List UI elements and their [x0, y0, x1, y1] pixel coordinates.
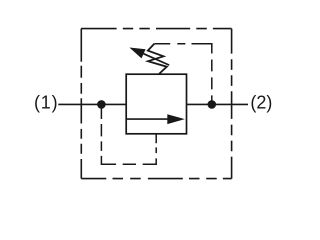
node at port 2 (junction dot) [208, 100, 217, 109]
pilot sensing dashed line from port 1 node: vertical run down [101, 107, 116, 164]
svg-text:(1): (1) [34, 92, 58, 112]
enclosure boundary, left edge [80, 29, 82, 179]
pilot sensing line: dashed then solid stub up to valve bottom [155, 134, 157, 153]
relief valve envelope (square) [126, 74, 186, 134]
enclosure boundary, bottom edge [81, 178, 231, 180]
port 2 line [187, 103, 249, 105]
flow path arrow inside valve [126, 114, 185, 124]
port 1 line [58, 103, 126, 105]
enclosure boundary, right edge [231, 29, 233, 179]
svg-text:(2): (2) [250, 93, 272, 113]
node at port 1 (junction dot) [97, 100, 106, 109]
spring (zigzag) on top of valve [148, 44, 167, 74]
pilot/vent dashed line from spring to port 2 node: horizontal run [154, 44, 212, 54]
pilot sensing dashed line: bottom horizontal run [123, 158, 157, 164]
pilot/vent dashed line: vertical run down to port 2 node [211, 60, 213, 101]
adjustment arrow crossing spring [129, 48, 169, 66]
enclosure boundary (phantom dashed rectangle), top edge [81, 28, 232, 30]
